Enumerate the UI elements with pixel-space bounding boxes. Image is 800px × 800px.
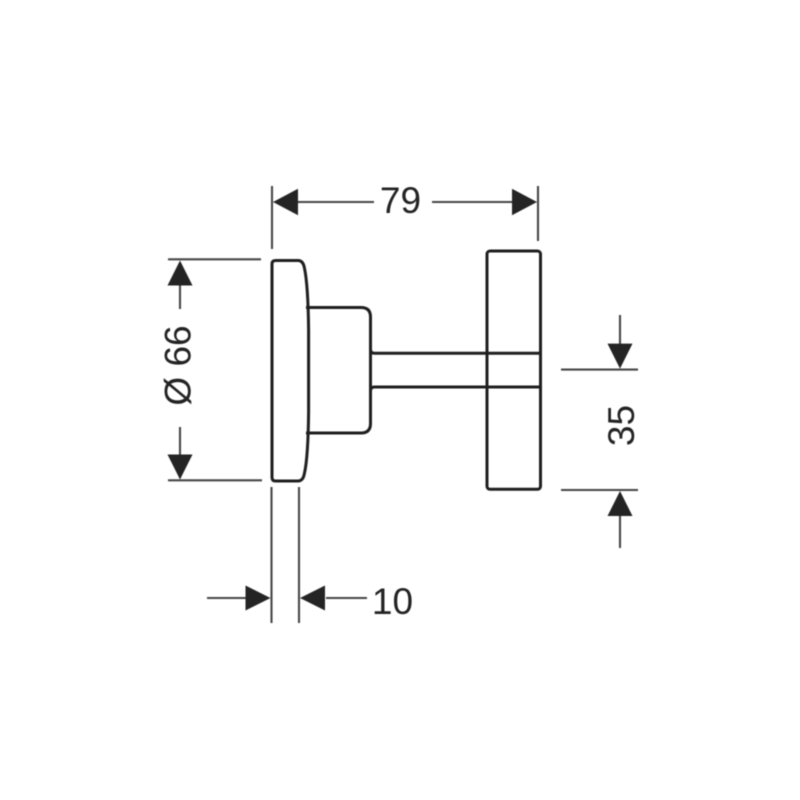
svg-text:35: 35 [601, 405, 642, 446]
dimension O66: top arrowhead (up) [168, 261, 193, 286]
dimension 79: dimension line right segment [432, 201, 514, 203]
dimension O66: upper shaft [179, 263, 181, 309]
dimension 79: left arrowhead [273, 189, 298, 215]
dimension 10: right arrowhead (pointing left) [300, 586, 325, 611]
dimension 35: top extension line [561, 369, 638, 371]
dimension O66: top extension line [168, 258, 261, 260]
dimension 35: upper arrowhead (down) [608, 344, 633, 369]
handle stem bottom line [375, 386, 541, 389]
dimension 10: left arrowhead (pointing right) [246, 586, 271, 611]
dimension 10: left extension line [270, 487, 272, 623]
cross handle bar (vertical) [487, 251, 541, 489]
svg-text:10: 10 [372, 581, 413, 622]
dimension O66: lower shaft [179, 427, 181, 478]
dimension 79: dimension line left segment [294, 201, 374, 203]
handle hub (adapter behind handle) [306, 308, 375, 434]
svg-text:Ø 66: Ø 66 [158, 325, 199, 405]
handle stem top line [375, 352, 541, 355]
escutcheon plate (side profile) [272, 261, 309, 482]
svg-text:79: 79 [380, 180, 421, 221]
dimension 35: lower shaft [619, 514, 621, 548]
dimension 35: bottom extension line [561, 489, 638, 491]
dimension 79: left extension line [271, 186, 273, 249]
dimension 35: lower arrowhead (up) [608, 491, 633, 516]
dimension 10: right extension line [298, 487, 300, 623]
dimension 10: left shaft [207, 597, 246, 599]
dimension O66: bottom arrowhead (down) [168, 455, 193, 480]
dimension 79: right extension line [537, 186, 539, 241]
dimension 35: upper shaft [619, 315, 621, 346]
dimension 79: right arrowhead [512, 189, 537, 215]
dimension O66: bottom extension line [168, 479, 262, 481]
dimension 10: right shaft [326, 597, 367, 599]
